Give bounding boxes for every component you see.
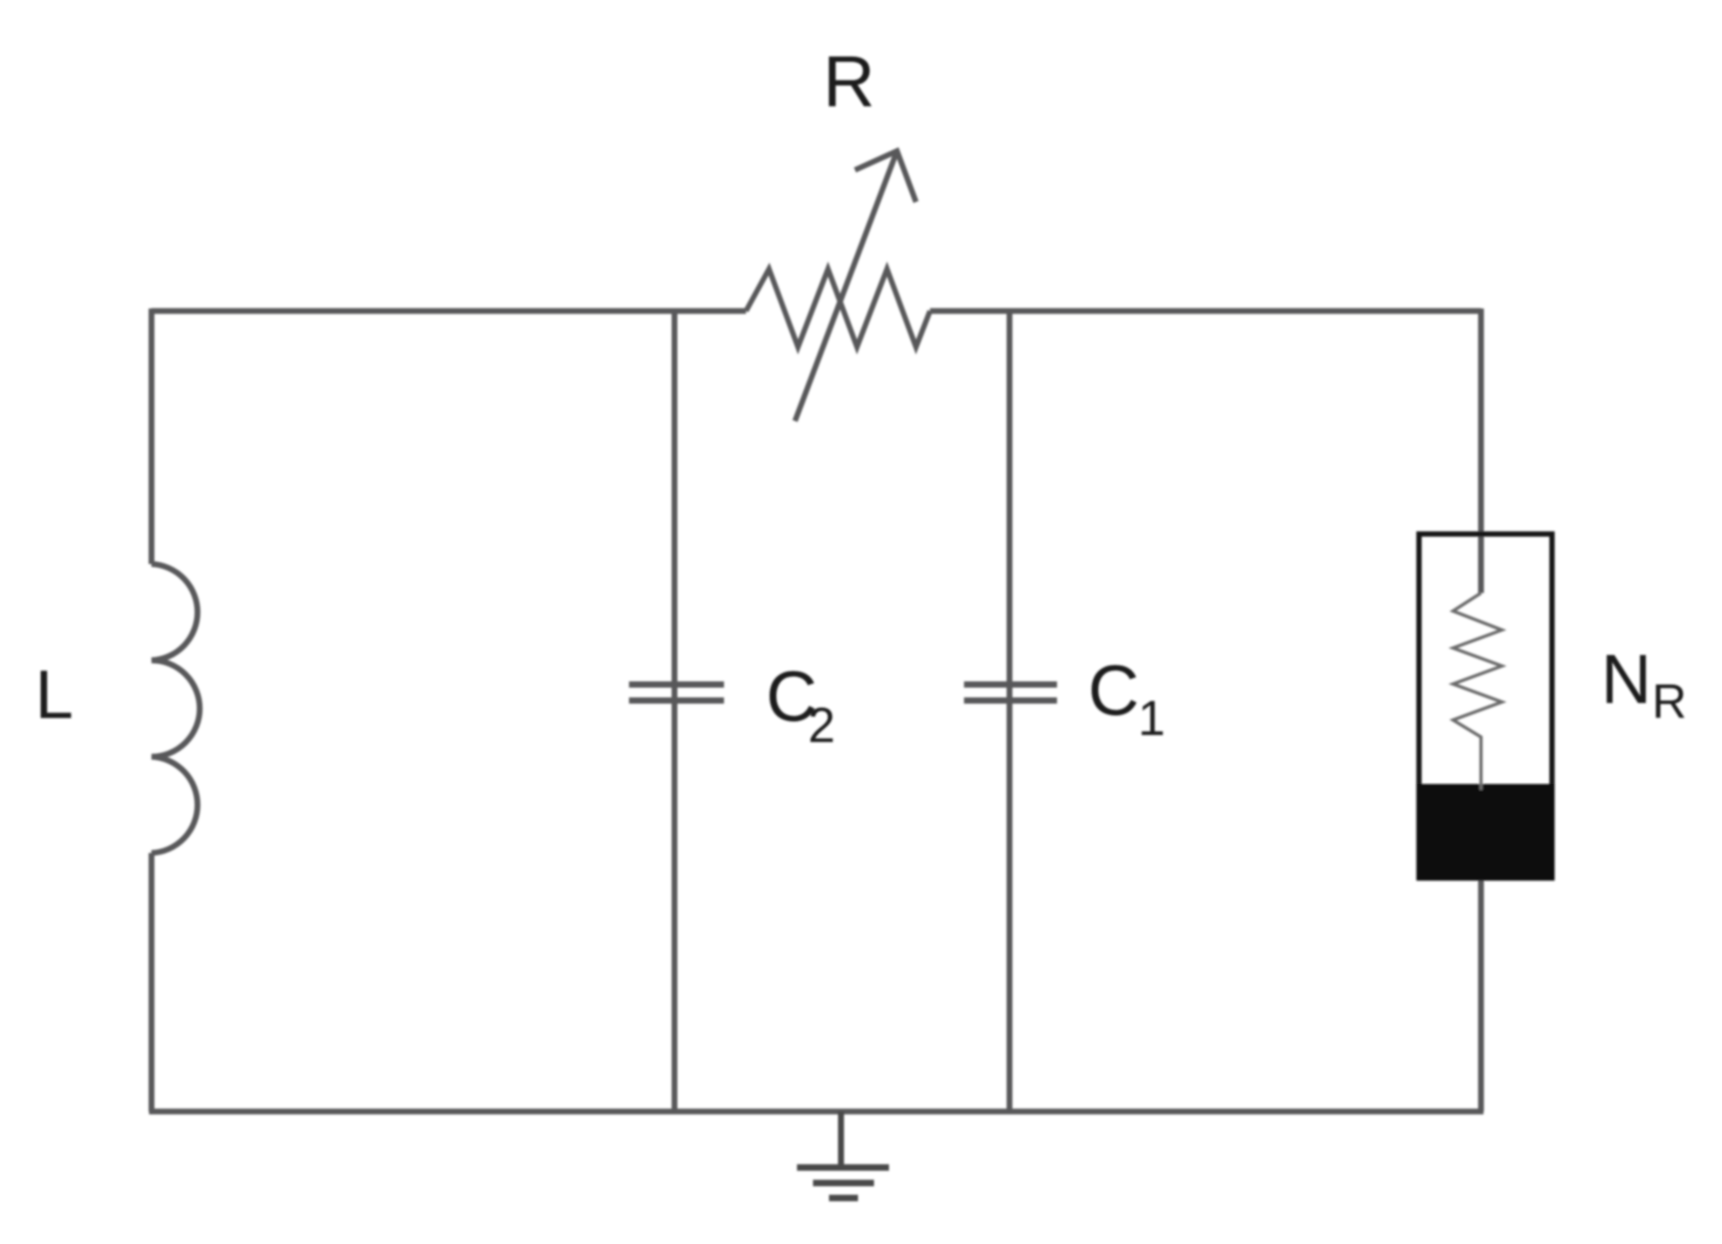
svg-text:2: 2 [808,699,835,753]
capacitor C1 [964,685,1057,701]
wire bottom rail [149,1109,1484,1115]
svg-text:L: L [35,656,73,733]
wire right rail lower [1478,878,1484,1112]
wire right rail upper [1478,309,1484,594]
capacitor C2 [629,685,724,701]
NR internal resistor zigzag [1453,593,1502,790]
svg-text:N: N [1601,640,1652,718]
wire left rail lower [149,853,155,1112]
NR black block [1417,784,1555,881]
wire top rail right segment [930,308,1481,314]
nonlinear resistor NR box [1419,534,1552,878]
inductor L [152,564,200,853]
ground [797,1112,889,1199]
svg-text:R: R [1652,676,1687,729]
svg-text:1: 1 [1138,692,1165,746]
wire top rail left segment [152,308,747,314]
resistor R (variable, zigzag) [746,269,930,347]
wire C1 branch [1007,311,1013,1112]
wire C2 branch [672,311,678,1112]
arrow of variable resistor R [795,151,916,421]
svg-text:R: R [823,42,875,122]
svg-text:C: C [1088,652,1139,731]
wire left rail upper [149,309,155,565]
